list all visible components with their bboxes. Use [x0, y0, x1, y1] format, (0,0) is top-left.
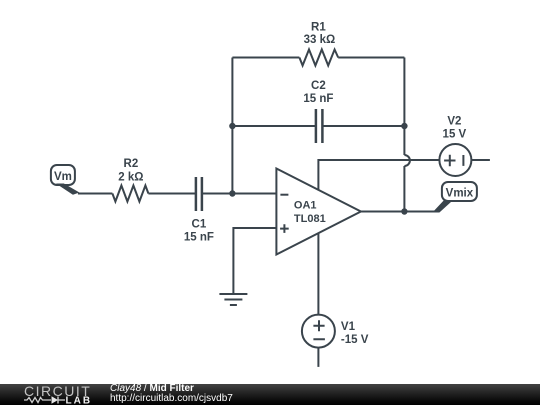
wire: V2 right lead [471, 159, 490, 161]
svg-text:TL081: TL081 [294, 213, 326, 225]
label C2 value [303, 80, 333, 105]
label R2 value [118, 158, 143, 184]
wire: V- pin down to V1 [317, 233, 319, 314]
wire: C1 to op-amp inverting input [202, 193, 277, 195]
node: junction dot output [401, 208, 407, 214]
logo CircuitLab [0, 384, 100, 405]
flag Vm [51, 165, 80, 195]
capacitor C2 [316, 109, 323, 143]
svg-text:V2: V2 [447, 116, 461, 128]
svg-text:15 nF: 15 nF [184, 232, 214, 244]
label V1 value [341, 321, 369, 346]
wire: top feedback horizontal (R1 leads) [232, 57, 404, 59]
svg-text:LAB: LAB [66, 396, 93, 405]
op-amp OA1 [276, 169, 361, 255]
svg-text:C2: C2 [311, 80, 326, 92]
hop over V+ supply wire [404, 155, 410, 166]
ground [219, 294, 247, 305]
op-amp minus symbol [280, 194, 288, 196]
capacitor C1 [196, 177, 202, 211]
svg-text:-15 V: -15 V [341, 334, 369, 346]
footer credit text [110, 384, 233, 404]
wire: non-inverting input [233, 228, 276, 294]
svg-text:15 V: 15 V [443, 129, 467, 141]
wire: left feedback vertical [231, 58, 233, 194]
svg-text:33 kΩ: 33 kΩ [304, 34, 336, 46]
svg-text:Vm: Vm [54, 171, 72, 183]
wire: V+ pin and supply rail to V2 [318, 160, 439, 191]
svg-text:OA1: OA1 [294, 200, 317, 212]
svg-text:R2: R2 [124, 158, 139, 170]
resistor R2 [112, 186, 148, 202]
node: junction dot inverting input [229, 190, 235, 196]
voltage source V1 [302, 315, 335, 348]
wire: R2 to C1 [148, 193, 196, 195]
label C1 value [184, 219, 214, 244]
op-amp plus symbol [280, 224, 289, 233]
flag Vmix [432, 182, 477, 213]
wire: V1 bottom lead [317, 348, 319, 367]
node: junction dot right C2 [401, 123, 407, 129]
svg-text:15 nF: 15 nF [303, 93, 333, 105]
wire: right feedback vertical (with hop gap) [403, 58, 405, 212]
resistor R1 [299, 50, 338, 66]
label OA1 [294, 200, 326, 226]
svg-text:R1: R1 [311, 22, 326, 34]
wire: input from Vm to R2 [78, 193, 113, 195]
node: junction dot left C2 [229, 123, 235, 129]
svg-text:Vmix: Vmix [446, 188, 474, 200]
label R1 value [304, 22, 336, 47]
svg-text:V1: V1 [341, 321, 356, 333]
voltage source V2 [439, 144, 471, 176]
label V2 value [443, 116, 467, 141]
wire: op-amp output [361, 211, 438, 213]
svg-text:2 kΩ: 2 kΩ [118, 172, 143, 184]
svg-text:C1: C1 [192, 219, 207, 231]
footer bar [0, 384, 540, 405]
wire: C2 horizontal leads [232, 125, 404, 127]
